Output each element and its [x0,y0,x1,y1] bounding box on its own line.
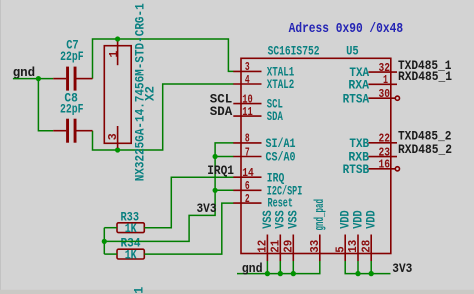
svg-text:1: 1 [383,73,388,87]
svg-text:VSS: VSS [261,210,275,229]
U5 pin 28 VDD [370,235,372,262]
svg-text:VDD: VDD [365,210,379,229]
svg-text:RXA: RXA [348,78,369,92]
svg-text:2: 2 [245,192,250,206]
svg-text:1: 1 [107,51,121,58]
svg-text:22: 22 [379,132,391,146]
resistor R34 [117,249,144,259]
svg-text:Reset: Reset [268,196,294,210]
U5 pin 11 SDA [233,115,261,117]
junction gnd rail pin12 [265,271,270,276]
U5 pin 2 Reset [233,202,261,204]
U5 pin 6 I2C/SPI [233,189,261,191]
svg-text:13: 13 [346,240,360,253]
junction gnd wire [36,76,41,81]
svg-text:VSS: VSS [274,210,288,229]
svg-text:22pF: 22pF [60,102,84,116]
svg-text:22pF: 22pF [60,50,84,64]
crystal pin 1 [117,42,119,66]
U5 pin 13 VDD [357,235,359,262]
svg-text:TXD485_2: TXD485_2 [398,130,452,144]
U5 pin 29 VSS [292,235,294,262]
svg-text:U5: U5 [346,45,359,59]
junction pin7 row [213,154,218,159]
U5 pin 3 XTAL1 [233,70,261,72]
crystal pin 3 [117,126,119,148]
svg-text:30: 30 [379,87,391,101]
capacitor C8 [53,119,92,143]
svg-text:SDA: SDA [267,110,283,124]
U5 pin 23 RXB [368,156,397,158]
svg-text:12: 12 [256,240,270,253]
wire net gnd bottom rail [237,261,320,274]
U5 pin 16 RTSB (inverted) [368,168,395,170]
svg-text:1K: 1K [125,222,137,236]
IC U5 body [241,58,391,253]
junction crystal pin3 / XTAL2 wire [115,147,120,152]
capacitor C7 [53,67,92,91]
U5 pin 22 TXB [368,142,397,144]
svg-text:RXD485_2: RXD485_2 [398,143,452,157]
wire net XTAL2 (C8 to crystal pin3 to U5 pin4) [93,84,234,150]
U5 pin 4 XTAL2 [233,83,261,85]
screen left edge bar [0,0,1,294]
screen bottom band [0,290,474,294]
svg-text:gnd: gnd [13,66,36,80]
wire net 3V3 pullup rail (pins 8,7,6 + R33/R34 left) [104,143,233,242]
resistor R33 [117,223,144,233]
U5 pin 30 RTSA (inverted) [368,97,395,99]
U5 pin 10 SCL [233,103,261,105]
U5 pin 33 gnd_pad [319,235,321,262]
svg-text:RXD485_1: RXD485_1 [398,70,452,84]
junction gnd rail pin29 [291,271,296,276]
svg-text:VSS: VSS [287,210,301,229]
svg-text:7: 7 [245,145,250,159]
wire net gnd to C7/C8 [13,78,53,80]
svg-text:RTSA: RTSA [343,92,370,106]
svg-text:14: 14 [242,166,254,180]
wire net IRQ1 (pin14 to R33 right) [144,177,233,228]
svg-text:gnd_pad: gnd_pad [313,199,327,231]
U5 pin 32 TXA [368,71,397,73]
junction R33/R34 left common [102,239,107,244]
svg-text:IRQ1: IRQ1 [207,164,234,178]
svg-text:8: 8 [245,132,250,146]
svg-text:21: 21 [269,240,283,253]
svg-text:XTAL2: XTAL2 [267,78,295,92]
U5 pin 1 RXA [368,83,397,85]
svg-text:28: 28 [359,240,373,253]
junction 3V3 rail pin28 [369,271,374,276]
U5 pin 8 SI/A1 [233,142,261,144]
wire net XTAL1 (C7 to crystal pin1 to U5 pin3) [93,39,234,79]
junction 3V3 rail pin13 [355,271,360,276]
U5 pin 5 VDD [344,235,346,262]
svg-text:RTSB: RTSB [343,163,370,177]
svg-text:SC16IS752: SC16IS752 [268,45,320,59]
svg-text:CS/A0: CS/A0 [266,151,296,165]
svg-text:1: 1 [132,287,146,294]
U5 pin 21 VSS [279,235,281,262]
junction gnd rail pin21 [278,271,283,276]
svg-text:4: 4 [245,73,250,87]
U5 pin 12 VSS [266,235,268,262]
junction pin6 row [213,188,218,193]
svg-text:TXB: TXB [349,137,369,151]
svg-text:Adress 0x90 /0x48: Adress 0x90 /0x48 [289,21,404,37]
U5 pin 14 IRQ [233,176,261,178]
svg-text:3: 3 [106,133,120,140]
wire net Reset (pin2 to R34 right) [144,203,233,254]
svg-text:SDA: SDA [210,105,233,119]
svg-text:VDD: VDD [351,210,365,229]
svg-text:3V3: 3V3 [197,202,217,216]
crystal X2 body [104,46,131,144]
wire net 3V3 bottom rail [345,261,390,274]
svg-text:16: 16 [379,158,391,172]
svg-text:IRQ: IRQ [267,171,285,185]
svg-text:X2: X2 [144,86,158,101]
svg-text:11: 11 [242,105,253,119]
U5 pin 7 CS/A0 [233,156,261,158]
svg-text:33: 33 [308,240,322,253]
svg-text:SI/A1: SI/A1 [266,137,296,151]
svg-text:1K: 1K [125,248,137,262]
junction crystal pin1 / XTAL1 wire [115,36,120,41]
svg-text:3V3: 3V3 [392,262,412,276]
svg-text:gnd: gnd [242,262,263,276]
svg-text:29: 29 [282,240,296,253]
